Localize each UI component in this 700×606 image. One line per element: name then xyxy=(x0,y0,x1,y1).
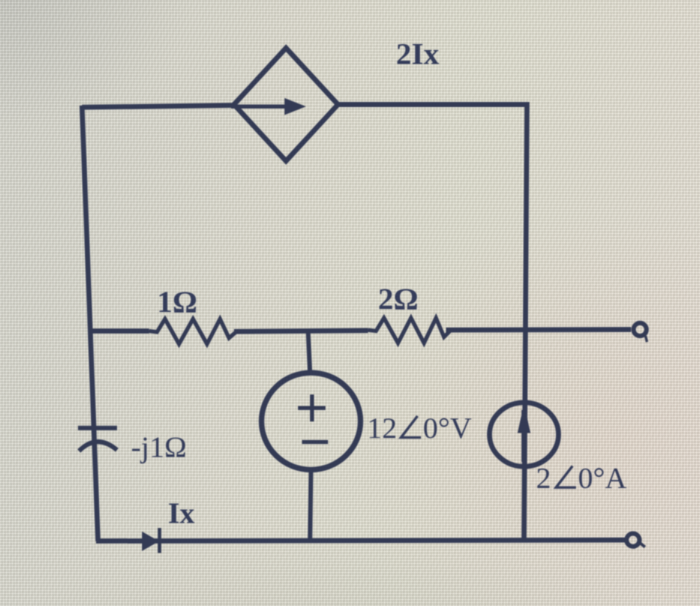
I1 arrowhead xyxy=(518,404,531,433)
current direction arrow Ix on bottom wire xyxy=(142,532,159,552)
dependent current source U1 diamond xyxy=(234,48,338,161)
wire stub to voltage source top xyxy=(308,330,310,373)
V1 plus sign xyxy=(298,395,328,443)
wire stub voltage source bottom xyxy=(310,470,311,541)
voltage source V1 circle xyxy=(262,373,361,470)
wire left branch xyxy=(82,106,98,542)
angle symbol xyxy=(401,416,421,438)
svg-text:2: 2 xyxy=(536,462,551,495)
svg-text:1Ω: 1Ω xyxy=(157,284,197,319)
resistor R2 2ohm zigzag xyxy=(368,318,450,343)
wire middle right segment to terminal xyxy=(446,327,631,333)
wire right branch xyxy=(524,102,527,541)
wire bottom xyxy=(96,540,627,541)
angle symbol xyxy=(556,466,576,488)
svg-text:0°V: 0°V xyxy=(423,412,472,445)
wire middle center segment xyxy=(234,331,368,332)
current source I1 circle xyxy=(490,403,559,467)
svg-text:0°A: 0°A xyxy=(578,462,627,495)
terminal node a (middle right) xyxy=(634,323,647,336)
I1 arrow stem xyxy=(522,410,527,462)
svg-text:2Ω: 2Ω xyxy=(378,281,418,316)
svg-text:-j1Ω: -j1Ω xyxy=(131,431,187,464)
terminal node b (bottom right) xyxy=(627,534,640,547)
svg-text:Ix: Ix xyxy=(168,497,195,530)
resistor R1 1ohm zigzag xyxy=(149,319,236,344)
svg-text:2Ix: 2Ix xyxy=(396,36,440,71)
wire middle-left stub xyxy=(89,329,149,334)
wire top-left segment xyxy=(82,105,237,107)
wire top-right segment xyxy=(335,102,527,107)
dependent source arrow xyxy=(231,105,290,109)
capacitor C1 curved plate xyxy=(79,442,117,451)
V1 minus sign xyxy=(302,440,328,444)
svg-text:12: 12 xyxy=(367,412,397,445)
capacitor C1 straight plate xyxy=(78,426,117,431)
